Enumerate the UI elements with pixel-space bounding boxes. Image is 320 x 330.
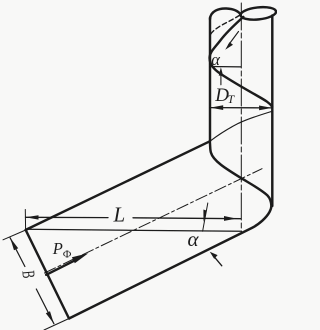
dimension L extension line at left xyxy=(24,210,26,231)
svg-text:α: α xyxy=(211,50,220,69)
dimension L line xyxy=(26,217,241,218)
dimension L left arrowhead xyxy=(26,215,39,219)
dimension D_T right arrowhead xyxy=(259,106,272,111)
dimension B extension line (bottom corner) xyxy=(44,319,69,330)
force arrow P xyxy=(46,259,78,275)
leader arrow pointing at helix (top) xyxy=(229,32,239,46)
dimension B bottom arrowhead xyxy=(46,311,54,324)
helix top right ellipse xyxy=(240,6,277,22)
svg-text:L: L xyxy=(113,203,126,227)
helix front arc 2 (S curve lower) xyxy=(210,141,272,206)
dimension D_T line xyxy=(210,107,272,109)
leader line with down arrow for angle alpha (bottom) xyxy=(203,203,208,231)
horizontal reference line for angle at strip xyxy=(26,229,242,231)
helix front arc 1 (S curve upper) xyxy=(210,17,273,107)
strip left end edge xyxy=(26,230,69,319)
hidden helix back arc (thin, middle turn) xyxy=(210,111,272,141)
strip centerline (dash-dot) xyxy=(45,169,263,273)
svg-text:P: P xyxy=(52,239,63,258)
dimension D_T left arrowhead xyxy=(210,105,223,110)
strip top edge xyxy=(26,141,210,230)
leader arrow at strip bottom edge (lower right) xyxy=(213,256,222,266)
dimension B line (two segments) xyxy=(10,238,54,324)
up arrow under top reference line xyxy=(220,71,222,85)
dimension L right arrowhead xyxy=(224,216,237,221)
strip bottom edge with rounded corner to cylinder xyxy=(69,206,271,319)
dimension B extension line (top corner) xyxy=(3,230,26,240)
hidden helix back arc (dashed, top turn) xyxy=(211,15,240,34)
horizontal reference line for angle alpha (top) xyxy=(210,66,241,68)
dimension B top arrowhead xyxy=(10,238,18,251)
helix top left loop arc xyxy=(210,8,241,19)
cylinder left edge xyxy=(209,18,211,142)
cylinder right edge xyxy=(271,16,273,207)
cylinder axis centerline xyxy=(240,3,242,232)
svg-text:α: α xyxy=(188,227,200,251)
svg-text:Ф: Ф xyxy=(63,249,72,261)
